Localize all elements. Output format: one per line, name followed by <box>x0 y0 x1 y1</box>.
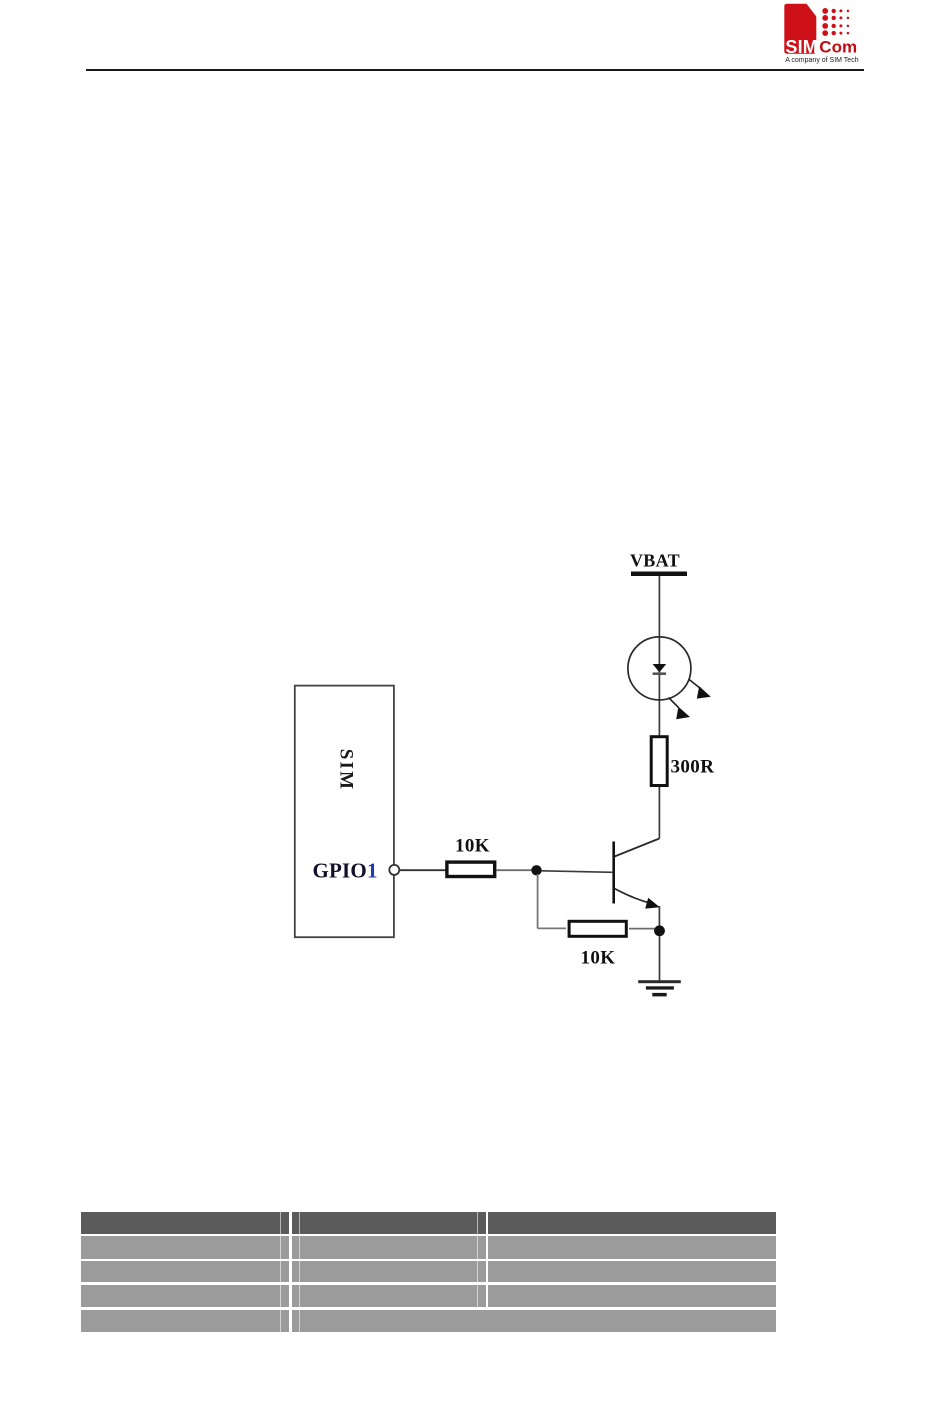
power symbol VBAT bar <box>631 572 687 577</box>
wire 300R to transistor collector <box>658 787 660 839</box>
LED D1 circle <box>628 637 691 700</box>
pin circle GPIO1 <box>389 865 399 875</box>
value label 10K (R1) <box>455 836 490 857</box>
svg-text:Com: Com <box>819 38 857 57</box>
resistor R2 10K body <box>569 921 626 936</box>
LED light arrow 2 <box>669 698 691 720</box>
wire node A down <box>537 874 539 928</box>
wire R1 to node A <box>496 869 533 871</box>
value label 300R <box>671 757 715 778</box>
resistor R1 10K body <box>447 862 495 876</box>
svg-text:SIM: SIM <box>785 37 818 57</box>
net label VBAT <box>630 551 680 571</box>
SIMCom logo <box>778 0 870 68</box>
module box SIM <box>295 686 394 938</box>
LED D1 cathode bar <box>653 672 667 675</box>
wire R2 to node B <box>629 928 655 930</box>
wire node B to ground <box>659 936 661 981</box>
resistor 300R body <box>651 737 667 786</box>
pin label GPIO1 <box>313 859 378 883</box>
svg-text:10K: 10K <box>581 948 616 969</box>
transistor Q1 base bar <box>612 842 615 904</box>
value label 10K (R2) <box>581 948 616 969</box>
ground symbol <box>638 980 681 996</box>
svg-text:GPIO1: GPIO1 <box>313 859 378 883</box>
wire VBAT to LED and through LED to resistor 300R <box>658 576 660 736</box>
svg-text:VBAT: VBAT <box>630 551 680 571</box>
svg-text:SIM: SIM <box>336 749 357 792</box>
logo dot matrix <box>822 8 849 36</box>
table column gaps <box>280 1212 281 1331</box>
svg-text:A company of SIM Tech: A company of SIM Tech <box>785 57 859 64</box>
data table <box>81 1212 776 1234</box>
junction node B dot <box>654 925 665 936</box>
logo card shape <box>784 4 816 54</box>
junction node A dot <box>531 865 541 875</box>
LED light arrow 1 <box>689 680 711 699</box>
wire node A to transistor base <box>541 871 613 873</box>
module label SIM (rotated) <box>336 749 357 792</box>
svg-text:10K: 10K <box>455 836 490 857</box>
svg-text:300R: 300R <box>671 757 715 778</box>
transistor Q1 collector diagonal <box>615 839 660 857</box>
wire emitter to junction node B <box>658 906 660 931</box>
circuit schematic <box>250 540 730 1012</box>
LED D1 diode triangle <box>653 664 667 672</box>
wire to resistor R2 <box>538 927 566 929</box>
transistor Q1 emitter with arrow <box>615 889 660 909</box>
wire GPIO1 pin to resistor R1 <box>400 869 447 871</box>
header rule <box>86 69 864 71</box>
